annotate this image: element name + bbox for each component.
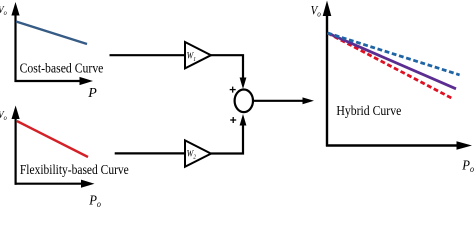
- flexibility-based curve graph y-axis: [12, 106, 20, 185]
- plus sign bottom input: [230, 117, 236, 123]
- hybrid red dashed curve: [328, 33, 453, 99]
- wire from W1 to summer with down arrow: [211, 55, 246, 89]
- hybrid purple solid curve: [328, 33, 457, 89]
- flexibility-based red curve: [17, 121, 88, 157]
- svg-text:Po: Po: [88, 192, 101, 208]
- cost-based curve graph y-axis: [11, 2, 19, 82]
- svg-text:Flexibility-based Curve: Flexibility-based Curve: [20, 162, 129, 177]
- flexibility-based curve graph x-axis: [15, 180, 95, 188]
- gain block W1: [185, 42, 211, 68]
- svg-text:Vo: Vo: [0, 110, 7, 123]
- cost-based blue curve: [16, 22, 87, 45]
- hybrid blue dashed curve: [328, 33, 460, 75]
- svg-text:Hybrid Curve: Hybrid Curve: [336, 102, 401, 118]
- hybrid curve graph y-axis: [323, 1, 332, 147]
- summing junction circle: [235, 90, 253, 113]
- wire from W2 to summer with up arrow: [211, 114, 246, 154]
- svg-text:Cost-based Curve: Cost-based Curve: [20, 59, 104, 75]
- svg-text:Vo: Vo: [311, 2, 321, 18]
- svg-text:W2: W2: [187, 148, 196, 161]
- hybrid curve graph x-axis: [326, 141, 472, 150]
- cost-based curve graph x-axis: [15, 77, 94, 85]
- output wire with arrow to hybrid graph: [253, 97, 314, 104]
- wire from flexibility graph to gain W2: [115, 152, 185, 154]
- svg-text:W1: W1: [187, 50, 196, 63]
- plus sign top input: [230, 87, 236, 93]
- svg-text:Vo: Vo: [0, 5, 7, 18]
- wire from cost graph to gain W1: [110, 54, 186, 56]
- gain block W2: [185, 140, 211, 166]
- svg-text:P: P: [87, 86, 97, 101]
- svg-text:Po: Po: [461, 157, 474, 174]
